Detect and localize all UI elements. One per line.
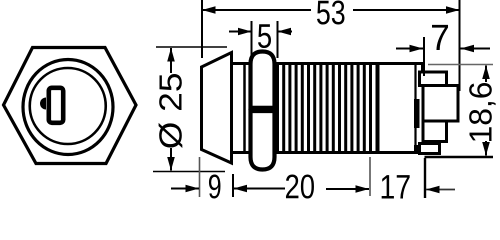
barrel body fill xyxy=(233,65,423,152)
barrel top edge xyxy=(232,62,425,65)
rear: left block mid xyxy=(414,99,420,128)
keyway capsule top (dome up, flat bottom) xyxy=(251,52,275,109)
dim 18,6: bottom extension line (body bottom extended) xyxy=(425,156,494,158)
barrel bottom edge xyxy=(232,151,425,154)
thread end line xyxy=(376,65,380,151)
rear: housing box 1 xyxy=(420,72,447,86)
dim 53: text xyxy=(317,0,345,24)
dim 18,6: top extension line xyxy=(428,64,493,66)
collar line xyxy=(243,65,246,151)
bottom dims: ext line A (x=199.5 gray) xyxy=(199,157,201,197)
dim 20: left arrow (tip at B) xyxy=(234,188,286,190)
dim 5: right extension line xyxy=(277,21,279,58)
dim 18,6: text (rotated) xyxy=(469,83,495,141)
key slot xyxy=(49,88,63,123)
keyway capsule bottom (flat top, dome down) xyxy=(251,111,275,170)
dim 18,6: upper shaft arrow up xyxy=(485,66,487,83)
dim 53: line right segment xyxy=(353,9,460,11)
dim 18,6: lower shaft arrow down xyxy=(485,141,487,156)
dim O25: top extension line xyxy=(156,46,227,48)
dim 9: text xyxy=(209,174,220,198)
rear: left block low xyxy=(414,145,419,153)
dim 20: text xyxy=(286,174,314,198)
dim 5: right arrow xyxy=(278,31,293,33)
dim 5: left arrow xyxy=(229,31,252,33)
rear: housing box 3 xyxy=(423,121,447,142)
dim 53: right extension line xyxy=(459,0,461,91)
dim 17: right arrow (tip at D) xyxy=(426,189,455,191)
dim 17: text xyxy=(382,175,410,198)
dim O25: lower shaft arrow down xyxy=(170,148,172,171)
bottom dims: ext line B (x=233) xyxy=(232,174,234,197)
rear: barrel end face line xyxy=(414,63,416,153)
dim O25: text (rotated) xyxy=(159,74,183,148)
dim 5: text xyxy=(258,24,271,48)
dim 7: left arrow xyxy=(396,48,423,50)
side view: bezel cup xyxy=(202,53,232,164)
dim 9: left arrow xyxy=(171,188,199,190)
dim 7: text xyxy=(432,25,448,50)
bottom dims: ext line C (x=370 gray) xyxy=(369,157,371,196)
hexagon nut (front view) xyxy=(4,48,137,164)
dim 7: left extension line xyxy=(423,37,425,76)
dim 53: left extension line xyxy=(201,0,203,58)
bezel outer rim circle (front view) xyxy=(23,60,113,155)
bezel inner rim circle (front view) xyxy=(30,68,106,144)
dim O25: bottom extension line xyxy=(153,171,225,173)
dim 7: right arrow xyxy=(461,48,491,50)
rear: connector stub top xyxy=(421,62,425,73)
thread lines xyxy=(278,65,371,151)
dim 5: left extension line xyxy=(251,21,253,58)
keyway junction band xyxy=(249,106,276,113)
dim O25: upper shaft arrow up xyxy=(170,48,172,73)
dim 20: right arrow (tip at C) xyxy=(326,188,369,190)
rear: housing box 2 (wide terminal) xyxy=(423,86,458,122)
dim 53: line left segment xyxy=(202,9,311,11)
rear: housing box 4 xyxy=(420,144,440,154)
key slot bump xyxy=(40,98,46,110)
bottom dims: ext line D (x=425) xyxy=(424,158,426,198)
